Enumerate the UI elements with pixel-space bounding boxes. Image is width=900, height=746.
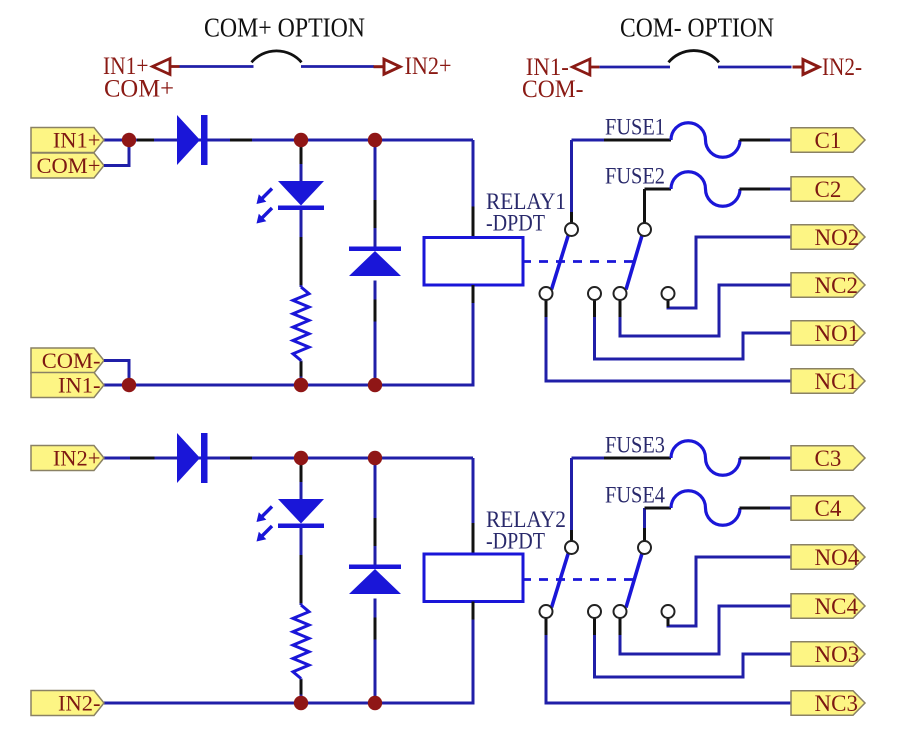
svg-text:IN2-: IN2- [822, 52, 862, 81]
svg-text:NC1: NC1 [815, 369, 858, 394]
svg-text:NO3: NO3 [815, 642, 860, 667]
svg-text:COM+ OPTION: COM+ OPTION [204, 13, 365, 43]
svg-text:IN1-: IN1- [58, 372, 100, 397]
svg-text:-DPDT: -DPDT [486, 211, 545, 236]
svg-text:FUSE1: FUSE1 [605, 115, 665, 140]
svg-text:NO1: NO1 [815, 321, 860, 346]
svg-text:COM+: COM+ [37, 153, 101, 178]
svg-text:IN2-: IN2- [58, 690, 100, 715]
svg-text:IN2+: IN2+ [405, 51, 452, 80]
svg-text:COM- OPTION: COM- OPTION [620, 13, 774, 43]
svg-text:NO2: NO2 [815, 225, 860, 250]
svg-text:COM+: COM+ [104, 74, 174, 103]
svg-text:FUSE3: FUSE3 [605, 433, 665, 458]
svg-text:C1: C1 [815, 128, 842, 153]
svg-text:COM-: COM- [42, 348, 101, 373]
svg-text:FUSE4: FUSE4 [605, 483, 665, 508]
svg-text:IN1+: IN1+ [53, 127, 101, 152]
svg-text:NC2: NC2 [815, 273, 858, 298]
svg-text:NO4: NO4 [815, 545, 860, 570]
svg-text:COM-: COM- [522, 74, 584, 103]
svg-text:C2: C2 [815, 177, 842, 202]
svg-text:C3: C3 [815, 446, 842, 471]
svg-text:NC4: NC4 [815, 594, 859, 619]
svg-text:NC3: NC3 [815, 691, 858, 716]
svg-text:IN2+: IN2+ [53, 445, 101, 470]
svg-text:-DPDT: -DPDT [486, 529, 545, 554]
svg-text:C4: C4 [815, 496, 842, 521]
svg-text:FUSE2: FUSE2 [605, 164, 665, 189]
